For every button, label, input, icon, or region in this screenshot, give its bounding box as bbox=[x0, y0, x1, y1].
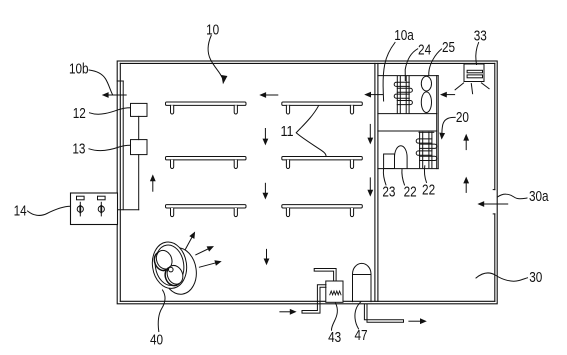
leader 12 bbox=[90, 108, 131, 115]
svg-text:12: 12 bbox=[73, 106, 86, 122]
leader 22 coil bbox=[424, 166, 426, 183]
leader 11 bbox=[296, 106, 326, 156]
svg-text:23: 23 bbox=[382, 185, 395, 201]
vent 33 slat 1 bbox=[467, 70, 482, 73]
flow arrow down 5 bbox=[369, 178, 371, 191]
shelf row3 left bbox=[166, 205, 247, 208]
controller gauge 2 bbox=[98, 196, 106, 200]
wire from 13 down bbox=[138, 155, 140, 210]
outer wall inner line (bottom) bbox=[120, 300, 495, 302]
machine room top line bbox=[378, 75, 438, 77]
machine room bottom line bbox=[378, 168, 438, 170]
leader 13 bbox=[89, 145, 131, 150]
vent 30a bottom cap bbox=[493, 213, 495, 215]
outer wall of drying chamber (outer line) bbox=[117, 61, 497, 304]
leader 30a bbox=[498, 194, 528, 199]
fan 40 air arrow up bbox=[185, 236, 192, 249]
pipe from tank 47 bottom bbox=[364, 304, 403, 322]
vent 33 slat 2 bbox=[467, 75, 482, 78]
flow arrow out of pipe 47 bbox=[409, 320, 421, 322]
pipe into pump 43 left (from outside) bbox=[302, 285, 326, 313]
wire to controller 14 bbox=[116, 209, 139, 211]
flow arrow up (left) bbox=[152, 180, 154, 191]
sensor box 13 bbox=[131, 140, 148, 155]
shelf row1 left bbox=[166, 102, 247, 105]
leader 33 bbox=[476, 43, 479, 65]
leader 20 with arrowhead bbox=[442, 117, 455, 134]
partition wall line 2 bbox=[377, 63, 379, 301]
flow arrow down 4 bbox=[369, 124, 371, 138]
flow arrow left (top middle) bbox=[265, 94, 278, 96]
shelf row2 right bbox=[282, 157, 363, 160]
pump 43 winding mark bbox=[330, 291, 341, 295]
svg-text:33: 33 bbox=[474, 29, 487, 45]
wire between 12 and 13 bbox=[138, 116, 140, 139]
leader 43 bbox=[331, 303, 337, 330]
leader 40 bbox=[158, 290, 165, 332]
svg-text:10: 10 bbox=[206, 22, 219, 38]
svg-text:11: 11 bbox=[280, 124, 293, 140]
sensor box 12 bbox=[131, 103, 148, 116]
leader 25 bbox=[429, 49, 442, 76]
svg-text:10b: 10b bbox=[69, 61, 89, 77]
outer wall inner line (right, below vent 30a) bbox=[494, 214, 496, 301]
vent 30a top cap bbox=[493, 189, 495, 191]
leader 30 bbox=[476, 273, 528, 281]
leader 24 bbox=[405, 49, 418, 81]
shelf row3 right bbox=[282, 205, 363, 208]
leader 14 bbox=[28, 206, 71, 215]
heater coil 22 bbox=[419, 131, 434, 133]
tank 47 bbox=[353, 263, 372, 301]
circulation fan 40 bbox=[159, 246, 199, 297]
heater coil 24 bbox=[396, 76, 398, 113]
flow arrow left (corridor to machine room) bbox=[446, 94, 455, 96]
leader 23 bbox=[383, 170, 386, 186]
leader 10b bbox=[89, 70, 113, 95]
pump 43 box bbox=[326, 281, 343, 302]
flow arrow left (through partition) bbox=[370, 94, 383, 96]
svg-text:20: 20 bbox=[456, 110, 469, 126]
blower 25 upper ellipse bbox=[421, 76, 431, 91]
svg-text:40: 40 bbox=[150, 332, 163, 348]
svg-text:22: 22 bbox=[404, 185, 417, 201]
shelf row2 left bbox=[166, 157, 247, 160]
pipe into pump 43 top bbox=[314, 269, 336, 282]
vent 33 air ray right bbox=[481, 83, 489, 89]
shelf row1 right bbox=[282, 102, 363, 105]
flow arrow down 3 bbox=[266, 249, 268, 259]
blower 25 lower ellipse bbox=[421, 92, 431, 113]
svg-text:10a: 10a bbox=[394, 28, 414, 44]
svg-text:14: 14 bbox=[14, 203, 27, 219]
svg-text:43: 43 bbox=[328, 330, 341, 346]
machine room lower compartment ceiling bbox=[378, 130, 437, 132]
controller gauge 1 bbox=[77, 196, 85, 200]
fan 40 air arrow low bbox=[199, 263, 216, 267]
outer wall inner line (top) bbox=[120, 62, 495, 64]
flow arrow up (corridor 1) bbox=[465, 139, 467, 149]
outer wall inner line (right, above vent 30a) bbox=[494, 63, 496, 189]
vent 33 body bbox=[464, 64, 484, 82]
leader 47 bbox=[355, 302, 361, 329]
duct line along left wall bbox=[122, 81, 124, 210]
svg-text:24: 24 bbox=[418, 42, 431, 58]
fan 40 air arrow mid bbox=[196, 248, 209, 254]
leader 10 with arrowhead bbox=[208, 36, 222, 78]
svg-text:30: 30 bbox=[529, 270, 542, 286]
partition wall line 1 bbox=[374, 63, 376, 301]
machine room shelf line (upper compartment floor) bbox=[378, 113, 437, 115]
leader 22 dome bbox=[402, 169, 405, 185]
svg-text:22: 22 bbox=[422, 182, 435, 198]
component 22 (dome) bbox=[395, 146, 408, 169]
duct top tick bbox=[117, 80, 123, 82]
vent 33 air ray left bbox=[455, 83, 464, 90]
svg-text:47: 47 bbox=[354, 328, 367, 344]
leader 10a bbox=[383, 43, 395, 102]
machine room right wall line 1 bbox=[436, 76, 438, 169]
machine room right wall line 2 bbox=[437, 76, 439, 169]
svg-text:30a: 30a bbox=[529, 189, 549, 205]
flow arrow left (vent 10b) bbox=[107, 94, 126, 96]
vent 33 air ray middle bbox=[471, 84, 472, 94]
svg-text:25: 25 bbox=[442, 40, 455, 56]
flow arrow into pipe 43 bbox=[280, 311, 291, 313]
svg-text:13: 13 bbox=[72, 142, 85, 158]
component 23 (small box) bbox=[384, 154, 395, 169]
flow arrow up (corridor 2) bbox=[465, 182, 467, 192]
outer wall inner line (left) bbox=[119, 63, 121, 301]
flow arrow down 2 bbox=[264, 183, 266, 194]
flow arrow left (vent 30a) bbox=[483, 203, 508, 205]
controller 14 box bbox=[71, 193, 118, 225]
flow arrow down 1 bbox=[264, 129, 266, 140]
